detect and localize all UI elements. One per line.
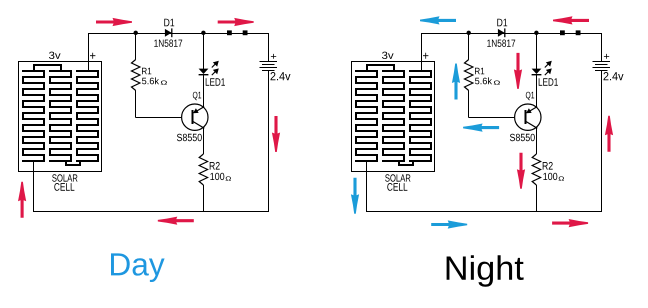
connector pad 1 (day)	[227, 30, 232, 35]
connector pad 2 (day)	[243, 30, 248, 35]
wire bottom net-B (night)	[366, 211, 602, 213]
current arrow night R1 side (blue, up)	[452, 64, 460, 100]
wire R1 bottom lead (night)	[468, 91, 470, 118]
current arrow night top-right (red, left)	[553, 16, 589, 24]
wire LED anode lead (day)	[203, 33, 205, 69]
LED LED1 (night)	[532, 62, 558, 86]
resistor R1 5.6k (night)	[465, 60, 501, 91]
current arrow night base (blue, left)	[463, 124, 499, 132]
wire R2 bottom lead (night)	[536, 185, 538, 212]
wire R2 bottom lead (day)	[203, 185, 205, 212]
caption Day	[111, 253, 165, 282]
connector pad 1 (night)	[560, 30, 565, 35]
wire Q1 collector to R2 (day)	[203, 127, 205, 155]
current arrow day left side (red, up)	[18, 182, 26, 218]
current arrow day top-left (red, right)	[96, 18, 132, 26]
current arrow night mid (red, down)	[514, 53, 522, 89]
wire Q1 base lead (night)	[469, 117, 515, 119]
transistor Q1 S8550 (day)	[177, 92, 208, 142]
node junction R1/top (night)	[467, 31, 471, 35]
wire R1 top lead (day)	[135, 33, 137, 60]
current arrow night bottom-left (blue, right)	[431, 220, 467, 228]
wire LED cathode to Q1 emitter (night)	[536, 75, 538, 108]
solar cell PV (day)	[18, 52, 102, 191]
wire battery positive drop (night)	[601, 33, 603, 62]
wire Q1 base lead (day)	[136, 117, 182, 119]
wire LED cathode to Q1 emitter (day)	[203, 75, 205, 108]
wire left (solar cell + to top) (day)	[88, 33, 90, 71]
current arrow night battery side (red, up)	[605, 116, 613, 152]
connector pad 2 (night)	[576, 30, 581, 35]
wire top net-A (day)	[88, 33, 269, 35]
wire left (solar cell + to top) (night)	[421, 33, 423, 71]
current arrow day top-right (red, right)	[218, 18, 254, 26]
wire battery positive drop (day)	[268, 33, 270, 62]
wire solar cell bottom tap (day)	[33, 161, 35, 212]
diode D1 (day)	[154, 19, 182, 47]
wire R1 top lead (night)	[468, 33, 470, 60]
resistor R2 100 (night)	[532, 154, 564, 185]
node junction LED/top (night)	[534, 31, 538, 35]
current arrow night left side (blue, down)	[351, 178, 359, 214]
battery BT 2.4v (day)	[259, 54, 290, 80]
LED LED1 (day)	[199, 62, 225, 86]
wire solar cell bottom tap (night)	[366, 161, 368, 212]
transistor Q1 S8550 (night)	[510, 92, 541, 142]
wire top net-A (night)	[421, 33, 602, 35]
resistor R2 100 (day)	[199, 154, 231, 185]
wire Q1 collector to R2 (night)	[536, 127, 538, 155]
wire battery negative to bottom (day)	[268, 71, 270, 213]
caption Night	[447, 255, 524, 287]
resistor R1 5.6k (day)	[132, 60, 168, 91]
diode D1 (night)	[487, 19, 515, 47]
wire battery negative to bottom (night)	[601, 71, 603, 213]
node junction LED/top (day)	[201, 31, 205, 35]
current arrow day bottom (red, left)	[158, 217, 194, 225]
wire R1 bottom lead (day)	[135, 91, 137, 118]
current arrow night bottom-right (red, right)	[552, 219, 588, 227]
battery BT 2.4v (night)	[592, 54, 623, 80]
wire LED anode lead (night)	[536, 33, 538, 69]
wire bottom net-B (day)	[33, 211, 269, 213]
node junction R1/top (day)	[134, 31, 138, 35]
current arrow night R2 (red, down)	[517, 153, 525, 189]
current arrow night top-left (blue, left)	[420, 16, 456, 24]
current arrow day battery side (red, down)	[272, 116, 280, 152]
solar cell PV (night)	[351, 52, 435, 191]
